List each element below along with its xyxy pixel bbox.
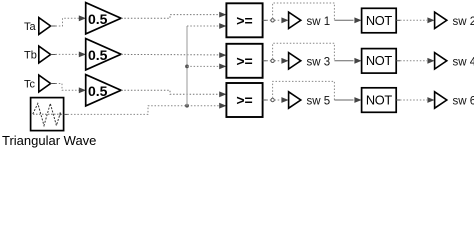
svg-text:sw 3: sw 3: [307, 56, 331, 68]
triangular wave label: [2, 133, 96, 148]
wire trunk of triangular wave net: [186, 26, 188, 106]
inport Ta label: [24, 21, 37, 33]
gain G1 (0.5): [86, 3, 121, 34]
gain G3 (0.5): [86, 75, 121, 106]
outport sw5 label: [307, 96, 331, 108]
outport sw2 label: [453, 16, 474, 28]
svg-text:sw 1: sw 1: [307, 16, 331, 28]
wire U2 output to junction: [263, 60, 271, 62]
wire Tb to gain G2: [51, 52, 86, 58]
wire Tc to gain G3: [51, 84, 86, 94]
outport sw6: [435, 92, 447, 108]
wire Ta to gain G1: [51, 15, 86, 26]
svg-text:>=: >=: [236, 92, 252, 108]
wire trunk tap to comparator U1 input 2: [187, 23, 226, 29]
svg-text:>=: >=: [236, 12, 252, 28]
wire N1 to outport sw2: [396, 17, 434, 23]
inport Tc: [39, 75, 51, 92]
outport sw2: [435, 12, 447, 28]
wire trunk tap to comparator U2 input 2: [187, 64, 226, 70]
outport sw3: [289, 53, 301, 69]
wire junction to outport sw3: [274, 58, 288, 64]
svg-text:sw 5: sw 5: [307, 96, 331, 108]
svg-text:NOT: NOT: [366, 92, 393, 107]
wire G3 to comparator U3 input 1: [121, 90, 226, 97]
svg-text:>=: >=: [236, 53, 252, 69]
svg-text:sw 4: sw 4: [453, 56, 474, 68]
inport Tb: [39, 46, 51, 63]
triangular wave source block: [31, 98, 64, 131]
svg-text:Triangular Wave: Triangular Wave: [2, 133, 96, 148]
wire branch row 3 (junction over sw5 to NOT N3): [273, 81, 362, 103]
svg-text:NOT: NOT: [366, 53, 393, 68]
junction node row 2: [271, 59, 274, 62]
wire G1 to comparator U1 input 1: [121, 12, 226, 19]
junction on triangular wave net (row 3): [185, 104, 189, 108]
svg-text:0.5: 0.5: [88, 83, 108, 99]
comparator U1 (relational operator >=): [226, 3, 262, 37]
wire junction to outport sw5: [274, 97, 288, 103]
wire triangular wave to comparator U3 input 2: [64, 103, 227, 115]
inport Ta: [39, 18, 51, 35]
svg-text:Tb: Tb: [24, 49, 37, 61]
outport sw4: [435, 53, 447, 69]
outport sw5: [289, 92, 301, 108]
svg-text:NOT: NOT: [366, 13, 393, 28]
outport sw4 label: [453, 56, 474, 68]
outport sw1: [289, 12, 301, 28]
junction node row 1: [271, 19, 274, 22]
NOT gate N2: [362, 49, 397, 74]
outport sw3 label: [307, 56, 331, 68]
svg-text:sw 2: sw 2: [453, 16, 474, 28]
svg-text:Tc: Tc: [24, 78, 36, 90]
wire G2 to comparator U2 input 1: [121, 52, 226, 58]
junction node row 3: [271, 98, 274, 101]
outport sw1 label: [307, 16, 331, 28]
junction on triangular wave net (row 2): [185, 65, 189, 69]
wire junction to outport sw1: [274, 17, 288, 23]
wire U1 output to junction: [263, 19, 271, 21]
comparator U2 (relational operator >=): [226, 44, 262, 78]
NOT gate N1: [362, 8, 397, 33]
svg-text:0.5: 0.5: [88, 47, 108, 63]
inport Tb label: [24, 49, 37, 61]
svg-text:0.5: 0.5: [88, 11, 108, 27]
wire N3 to outport sw6: [396, 97, 434, 103]
wire U3 output to junction: [263, 99, 271, 101]
wire branch row 1 (junction over sw1 to NOT N1): [273, 3, 362, 23]
wire branch row 2 (junction over sw3 to NOT N2): [273, 43, 362, 63]
wire N2 to outport sw4: [396, 58, 434, 64]
comparator U3 (relational operator >=): [226, 83, 262, 117]
NOT gate N3: [362, 88, 397, 113]
svg-text:Ta: Ta: [24, 21, 37, 33]
gain G2 (0.5): [86, 39, 121, 70]
outport sw6 label: [453, 96, 474, 108]
inport Tc label: [24, 78, 36, 90]
svg-text:sw 6: sw 6: [453, 96, 474, 108]
